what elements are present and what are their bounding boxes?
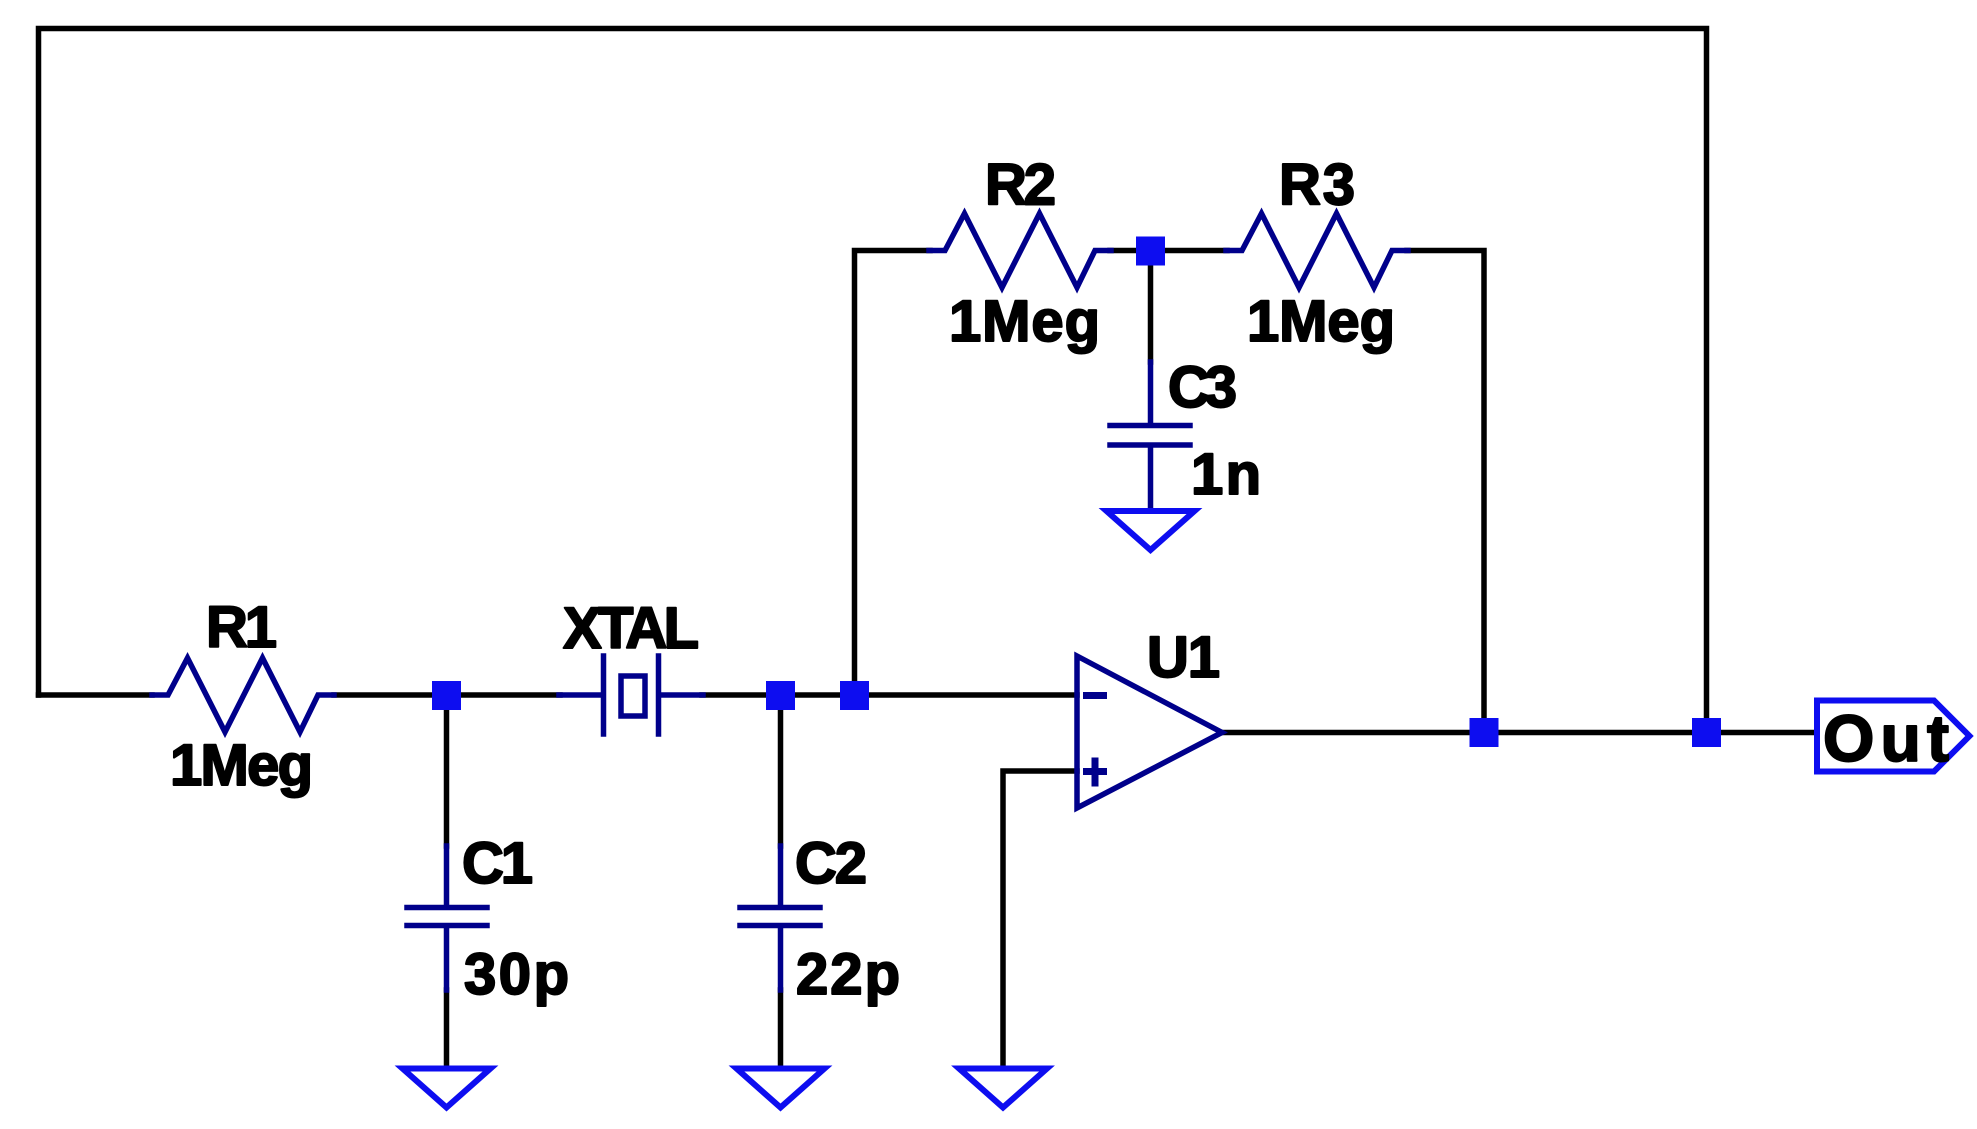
svg-text:1Meg: 1Meg	[949, 289, 1100, 354]
svg-text:R2: R2	[985, 153, 1056, 218]
svg-text:C3: C3	[1168, 355, 1237, 420]
svg-text:1Meg: 1Meg	[1247, 289, 1395, 354]
svg-text:XTAL: XTAL	[563, 596, 699, 661]
svg-text:30p: 30p	[464, 942, 569, 1007]
svg-text:1Meg: 1Meg	[170, 733, 313, 798]
svg-text:Out: Out	[1823, 701, 1949, 775]
svg-text:22p: 22p	[796, 942, 900, 1007]
svg-text:U1: U1	[1147, 625, 1220, 690]
svg-text:C2: C2	[795, 831, 867, 896]
svg-text:1n: 1n	[1191, 442, 1261, 507]
svg-text:C1: C1	[462, 831, 533, 896]
svg-text:R3: R3	[1279, 153, 1355, 218]
svg-text:R1: R1	[206, 595, 277, 660]
